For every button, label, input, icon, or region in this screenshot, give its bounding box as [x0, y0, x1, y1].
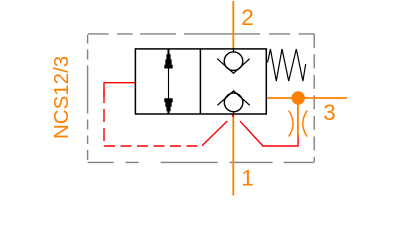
svg-text:2: 2: [241, 5, 254, 30]
svg-text:1: 1: [241, 165, 254, 190]
svg-text:3: 3: [323, 100, 336, 125]
svg-text:NCS12/3: NCS12/3: [50, 56, 73, 139]
